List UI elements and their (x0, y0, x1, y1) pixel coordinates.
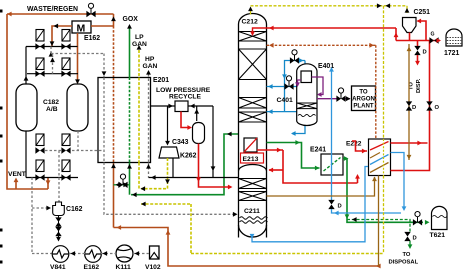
subcooler E401 coil (301, 71, 312, 83)
heater E162 (M box) (72, 21, 91, 33)
wire green disposal branch (dashed) (347, 220, 410, 232)
valve under F2 (61, 43, 70, 49)
svg-text:PLANT: PLANT (353, 103, 374, 110)
svg-text:HP: HP (145, 56, 155, 63)
E222 blue pass (370, 155, 389, 165)
svg-text:K262: K262 (180, 153, 197, 160)
E222 red pass (352, 141, 367, 151)
wire drop to hp header x=213 (212, 106, 214, 178)
svg-text:C182: C182 (43, 99, 59, 106)
wire E213 red to right (257, 149, 283, 151)
svg-text:GAN: GAN (143, 63, 158, 70)
compressor K111 (116, 245, 133, 262)
wire E162 inlet right riser (orange) (91, 25, 114, 27)
svg-text:C401: C401 (277, 97, 293, 104)
svg-text:DISPOSAL: DISPOSAL (389, 260, 419, 266)
svg-text:C162: C162 (66, 206, 83, 213)
wire HP GAN riser from K262 header (148, 163, 150, 178)
wire HP GAN line (gray) (148, 74, 150, 163)
wire yellow vertical through E222 (383, 6, 385, 139)
wire red branch into column side (269, 169, 283, 171)
svg-text:D: D (423, 50, 427, 56)
valve on argon line (336, 96, 345, 102)
vent arrow (orange) (15, 181, 17, 189)
svg-text:D: D (338, 204, 342, 210)
valve under F8 (61, 174, 70, 180)
wire blue through E241 to valve (light blue) (331, 70, 333, 200)
svg-text:T621: T621 (430, 232, 446, 239)
valve to T621 (413, 219, 422, 225)
wire C401 bottom drain (teal) (292, 124, 305, 134)
valve X-D on blue line (328, 200, 334, 209)
valves under C162 (58, 216, 60, 241)
packing section 6 (239, 192, 267, 201)
adsorber vessel C182 A (16, 84, 37, 131)
svg-text:TO: TO (359, 89, 368, 96)
bottom gray manifold (36, 150, 104, 152)
bottom black manifold (26, 177, 78, 179)
svg-text:D: D (412, 105, 416, 111)
wire gray to column C211 (gray dashed) (104, 163, 236, 215)
packing section 4 (239, 112, 267, 122)
svg-text:RECYCLE: RECYCLE (169, 94, 201, 101)
wire gray drop into E201 top (103, 54, 105, 78)
E222 brown passes (370, 163, 389, 173)
wire C251 bottom drop (red) (409, 33, 411, 41)
wire valve-row drop to vent header (orange) (47, 178, 49, 190)
svg-text:LP: LP (135, 34, 144, 41)
valve on C401 top feed (290, 57, 299, 63)
wire E401 purple loop (312, 77, 324, 95)
valve under F3 (35, 71, 44, 77)
gray link between rows (52, 54, 54, 74)
svg-text:M: M (77, 23, 86, 35)
manifold top valves (black) (26, 46, 78, 48)
exchanger V841 (52, 246, 69, 263)
wire column vapor to C401 top valve (teal) (285, 61, 306, 112)
drum T621 (432, 206, 448, 229)
svg-text:ARGON: ARGON (352, 96, 375, 103)
yellow top header (251, 5, 408, 7)
svg-text:O: O (435, 105, 440, 111)
wire red riser from E222 to reflux header (429, 41, 431, 144)
wire C343 vapor to recycle line (black) (196, 106, 198, 121)
valve under F4 (61, 71, 70, 77)
wire E222 brown outlet down (378, 176, 380, 267)
wire E222 red return lower (391, 143, 430, 171)
packing section 3 (239, 98, 267, 109)
wire column top to yellow header (250, 10, 252, 15)
wire red riser into E222 bottom (357, 176, 359, 183)
wire recycle cooler to C343 (red) (181, 112, 190, 128)
wire WASTE/REGEN header (orange) (7, 13, 114, 15)
exchanger E241 (321, 154, 343, 175)
svg-text:GOX: GOX (123, 16, 139, 23)
filter F7 (36, 160, 44, 172)
valve under F1 (35, 43, 44, 49)
recycle cooler box (175, 101, 188, 112)
cold box E201 (98, 78, 151, 163)
wire regen feed into column (orange dashed) (267, 44, 376, 46)
wire left border down to vent header (orange) (7, 14, 48, 189)
wire K262 suction drop (167, 106, 169, 144)
filter F6 (62, 134, 70, 146)
filter F5 (36, 134, 44, 146)
wire column to E241 (green) (267, 143, 320, 169)
svg-text:E241: E241 (310, 147, 326, 154)
svg-text:D: D (413, 236, 417, 242)
svg-text:GAN: GAN (132, 41, 147, 48)
separator C162 (53, 202, 65, 216)
second row manifold (black) (27, 73, 78, 75)
valve X-D to disposal (red) (417, 41, 419, 47)
wire E162 outlet left (orange) (52, 26, 72, 47)
svg-text:E213: E213 (243, 156, 259, 163)
wire teal into column y=86 with valve (267, 86, 297, 88)
filter F4 (62, 58, 70, 70)
cyclone C251 (403, 18, 417, 33)
drum 1721 (446, 29, 462, 46)
svg-text:V102: V102 (145, 264, 161, 271)
wire recycle line y=106 (black) (151, 105, 176, 107)
wire brown from column bottom into E222 (brown) (267, 177, 375, 196)
wire K262 discharge (yellow) (141, 158, 168, 189)
wire adsorber B bottom drop (77, 131, 79, 151)
wire yellow bottom return to LP GAN (yellow) (141, 203, 191, 205)
wire column bottoms (blue) (252, 167, 368, 242)
wire branch into C162 (32, 207, 49, 209)
svg-text:VENT: VENT (8, 171, 27, 178)
valve X-D on brown line (406, 101, 412, 110)
wire C343 bottom to column (red) (199, 144, 232, 188)
wire adsorber A bottom drop (25, 131, 27, 178)
wire E222 red outlet to top right (391, 142, 428, 144)
svg-text:G: G (431, 32, 435, 38)
reboiler coil E213 (244, 138, 257, 152)
valve X-D disposal (404, 232, 410, 241)
C401 liquid level (298, 114, 316, 116)
filter F8 (62, 160, 70, 172)
svg-text:TO: TO (403, 252, 411, 258)
svg-text:K111: K111 (116, 264, 132, 271)
svg-text:1721: 1721 (444, 50, 459, 57)
column C212/C211 shell (239, 14, 267, 238)
filter F1 (36, 30, 44, 42)
packing section 2 (239, 49, 267, 80)
wire reflux into column top (red) (267, 27, 397, 29)
svg-text:E162: E162 (84, 264, 100, 271)
exchanger E222 (369, 139, 391, 176)
exchanger E162 (bottom row) (85, 246, 102, 263)
valve under F6 (61, 147, 70, 153)
wire K262 body drop to hp header (black) (172, 158, 174, 178)
wire yellow into C251 top (406, 6, 408, 13)
internal head arc (239, 165, 267, 172)
gray manifold to coldbox top (50, 47, 52, 54)
adsorber vessel C182 B (67, 84, 88, 131)
left edge ticks (0, 10, 3, 13)
valve on y=86 teal line (284, 83, 293, 89)
wire LP GAN line (yellow) (138, 50, 140, 78)
valve G to 1721 (429, 37, 438, 43)
label E213 (red box) (241, 153, 264, 163)
svg-text:C251: C251 (414, 9, 431, 16)
svg-text:WASTE/REGEN: WASTE/REGEN (27, 6, 78, 13)
compressor K262 (trapezoid) (159, 147, 179, 158)
svg-text:A/B: A/B (46, 106, 58, 113)
svg-text:E201: E201 (153, 77, 169, 84)
vessel C401 (297, 64, 317, 126)
valve on coldbox bottom stub (green) (114, 184, 130, 186)
wire adsorber A top riser (25, 47, 27, 85)
wire E241 outlet to T621 (green) (343, 158, 347, 160)
wire bottom row dashes (69, 253, 85, 255)
svg-text:C343: C343 (172, 139, 189, 146)
filter F3 (36, 58, 44, 70)
wire branch up to C251 (red) (418, 21, 427, 41)
TO ARGON PLANT box (352, 86, 376, 111)
wire regen gas from column into E222 top (orange) (375, 45, 377, 139)
packing section 1 (239, 32, 267, 42)
liquid level waves (240, 217, 268, 220)
filter F2 (62, 30, 70, 42)
wire GOX return from column (green) (131, 134, 239, 195)
drum V102 (150, 246, 160, 259)
svg-text:C212: C212 (242, 19, 258, 26)
svg-text:DISP.: DISP. (416, 78, 422, 93)
wire to C162 and V841 (gray dashed) (31, 178, 33, 254)
svg-text:C211: C211 (244, 208, 260, 215)
red top distribution header (396, 40, 440, 42)
hp suction header to E201 (black/gray) (149, 177, 239, 179)
svg-text:V841: V841 (50, 264, 66, 271)
wire regen riser x=113 (orange) (113, 14, 115, 26)
wire gray drop into C162 (gray dashed) (58, 151, 60, 203)
valve on waste header (86, 11, 95, 17)
vessel C343 (193, 123, 205, 144)
wire regen return bottom (orange) (114, 228, 379, 267)
valve under F7 (35, 174, 44, 180)
wire bottom row to V841 (32, 253, 52, 255)
wire GOX line (green) (129, 26, 131, 78)
wire E162 bottom drop to adsorber B (orange) (77, 33, 79, 83)
wire gray stream inside box (103, 78, 105, 163)
wire teal column return y=111 (267, 111, 297, 113)
C401 packing (297, 103, 317, 109)
valve under F5 (35, 147, 44, 153)
wire brown disposal line (brown) (408, 44, 410, 160)
svg-text:E162: E162 (84, 35, 100, 42)
wire argon product line (purple) (317, 98, 337, 100)
wire E222 blue outlet down to T621 line (391, 153, 405, 209)
packing section 5 (239, 179, 267, 189)
valve X-O on red riser (426, 101, 432, 110)
